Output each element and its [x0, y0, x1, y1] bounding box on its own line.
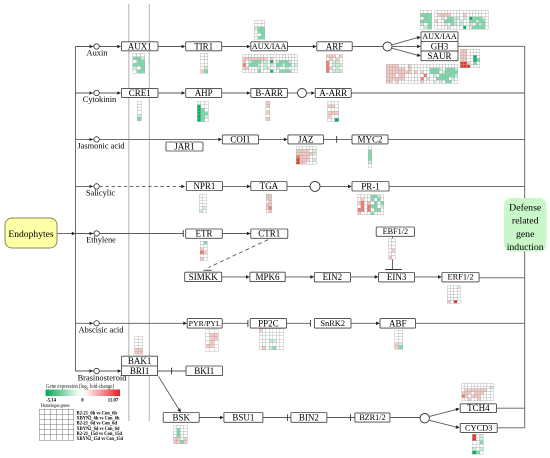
wire PP2C inhibits SnRK2 [287, 322, 311, 324]
heatmap below ETR [200, 241, 207, 261]
gene box EIN3 [379, 273, 415, 282]
heatmap below CYCD3 [472, 434, 483, 454]
gene box BSK [163, 413, 199, 423]
svg-text:A-ARR: A-ARR [319, 88, 347, 98]
svg-text:AUX/IAA: AUX/IAA [422, 32, 457, 41]
wire row start with node circle [76, 138, 94, 140]
svg-text:Gene expression (log2 fold-cha: Gene expression (log2 fold-change) [46, 383, 114, 391]
gene box JAZ [288, 135, 324, 144]
cell membrane (double vertical line) [128, 4, 130, 421]
heatmap below AUX1 [133, 53, 145, 73]
svg-text:Brasinosteroid: Brasinosteroid [78, 374, 128, 383]
junction circle brassinosteroid [420, 414, 429, 423]
svg-text:BZR1/2: BZR1/2 [359, 413, 385, 422]
svg-text:XBYN2_15d vs Con_15d: XBYN2_15d vs Con_15d [77, 437, 124, 442]
svg-text:EIN2: EIN2 [323, 272, 343, 282]
wire PR-1 row to right bus [389, 185, 525, 187]
svg-text:related: related [512, 216, 539, 227]
wire circle to BRI1 [99, 370, 118, 372]
Endophytes trunk (vertical distribution line) [75, 47, 77, 372]
svg-text:11.07: 11.07 [108, 399, 119, 404]
wire GH3 row to right bus [458, 45, 525, 47]
svg-text:induction: induction [507, 242, 544, 253]
gene box ERF1/2 [442, 273, 479, 282]
wire TIR1 to AUX/IAA [222, 46, 248, 48]
wire EIN3 to ERF1/2 [415, 276, 439, 278]
gene box ARF [317, 42, 352, 51]
svg-text:PP2C: PP2C [258, 318, 279, 328]
gene box SAUR [421, 51, 458, 61]
wire BIN2 inhibits BZR1/2 [327, 417, 355, 419]
svg-text:B-ARR: B-ARR [255, 88, 283, 98]
wire Endophytes to trunk [57, 233, 73, 235]
svg-text:CRE1: CRE1 [129, 88, 151, 98]
heatmap below JAZ [296, 147, 316, 165]
svg-text:BRI1: BRI1 [130, 366, 150, 376]
heatmap below NPR1 [199, 194, 206, 213]
gene box ETR [186, 229, 223, 238]
right-side bus line to defense box [524, 46, 526, 428]
svg-text:ERF1/2: ERF1/2 [447, 273, 473, 282]
wire JAZ inhibits MYC2 [324, 138, 352, 140]
gene box AHP [186, 88, 222, 97]
svg-text:COI1: COI1 [230, 134, 250, 144]
heatmap below EBF1/2 [389, 238, 396, 259]
wire BSU1 inhibits BIN2 [263, 417, 291, 419]
gene box GH3 [421, 42, 458, 52]
gene box BRI1 [122, 366, 158, 376]
wire row start with node circle [76, 322, 94, 324]
wire TCH4 row to right bus [497, 407, 525, 409]
svg-text:Cytokinin: Cytokinin [83, 95, 117, 104]
svg-text:Endophytes: Endophytes [8, 229, 54, 240]
svg-text:TIR1: TIR1 [194, 41, 213, 51]
svg-text:TGA: TGA [260, 181, 279, 191]
wire AUX1 to TIR1 [158, 46, 183, 48]
gene box ABF [380, 319, 416, 329]
gene box BIN2 [291, 413, 327, 423]
svg-text:gene: gene [516, 229, 535, 240]
wire row start with node circle [76, 233, 94, 235]
wire ARF to junction circle [352, 46, 383, 48]
wire AUX/IAA to ARF [287, 46, 313, 48]
wire junction to PR-1 [320, 185, 349, 187]
svg-text:Homologus genes: Homologus genes [41, 403, 70, 409]
heatmap above TCH4 [462, 383, 494, 400]
wire circle to AUX1 [99, 46, 118, 48]
svg-text:Abscisic acid: Abscisic acid [79, 326, 125, 335]
svg-text:SnRK2: SnRK2 [320, 319, 345, 328]
svg-text:EBF1/2: EBF1/2 [383, 227, 408, 236]
svg-text:PR-1: PR-1 [361, 181, 380, 191]
heatmap below auxin junction wide [386, 64, 458, 83]
wire BSK to BSU1 [199, 417, 221, 419]
wire row start with node circle [76, 46, 94, 48]
wire SnRK2 to ABF [351, 322, 377, 324]
heatmap above targets small [420, 10, 432, 29]
gene box PR-1 [352, 182, 389, 192]
heatmap below PR-1 [358, 195, 384, 215]
gene box BSU1 [224, 413, 263, 423]
heatmap above AUX/IAA [254, 21, 265, 40]
svg-text:AHP: AHP [195, 88, 213, 98]
heatmap below PP2C [259, 329, 283, 350]
heatmap below PYR/PYL [206, 330, 218, 352]
gene box CTR1 [251, 229, 288, 238]
heatmap right of SAUR [460, 49, 480, 68]
legend homologus genes grid [39, 409, 74, 440]
dashed wire circle to NPR1 [99, 185, 182, 187]
wire COI1 to JAZ [259, 138, 285, 140]
wire ABF row to right bus [416, 322, 525, 324]
gene box MPK6 [250, 272, 285, 281]
gene box TGA [251, 182, 287, 191]
wire EIN2 to EIN3 [351, 276, 376, 278]
dashed wire CTR1 inhibits SIMKK [209, 240, 269, 268]
junction circle salicylic [310, 181, 320, 191]
svg-text:GH3: GH3 [431, 41, 449, 51]
wire circle inhibits ETR [99, 233, 183, 235]
heatmap below ERF1/2 [447, 286, 460, 304]
heatmap below TGA [266, 194, 272, 213]
svg-text:CYCD3: CYCD3 [465, 423, 492, 432]
wires junction to AUX/IAA GH3 SAUR targets [392, 38, 418, 45]
wire B-ARR to junction circle [287, 92, 297, 94]
svg-text:Salicylic: Salicylic [86, 189, 116, 198]
wire row start with node circle [76, 92, 94, 94]
wire TGA to junction circle [287, 185, 310, 187]
heatmap below ARF [326, 55, 342, 73]
gene box CYCD3 [460, 423, 497, 432]
heatmap below MYC2 [368, 147, 371, 168]
svg-text:JAZ: JAZ [298, 134, 314, 144]
wire CYCD3 row to right bus [497, 427, 525, 429]
heatmap below A-ARR [328, 101, 339, 121]
svg-text:JAR1: JAR1 [174, 142, 195, 152]
gene box EIN2 [314, 273, 350, 282]
wire EBF1/2 inhibits EIN3 [392, 236, 394, 269]
svg-text:PYR/PYL: PYR/PYL [189, 319, 221, 328]
gene box PP2C [250, 319, 286, 329]
wire junction to A-ARR [307, 92, 313, 94]
wire BRI1 to BSK diagonal [159, 376, 180, 410]
heatmap below AUX/IAA [243, 54, 298, 73]
svg-text:ETR: ETR [196, 229, 213, 239]
wire row start with node circle [76, 185, 94, 187]
gene box TIR1 [186, 42, 222, 51]
wire BZR1/2 to junction circle [390, 417, 420, 419]
wire SIMKK to MPK6 [222, 276, 247, 278]
gene box BAK1 [122, 356, 158, 366]
svg-text:Auxin: Auxin [87, 49, 109, 58]
gene box SnRK2 [314, 319, 351, 329]
gene box AUX1 [122, 42, 159, 51]
gene box COI1 [222, 135, 258, 144]
svg-text:BSU1: BSU1 [232, 412, 254, 422]
wire circle to CRE1 [99, 92, 118, 94]
svg-text:MYC2: MYC2 [357, 134, 382, 144]
wires junction to TCH4 and CYCD3 [429, 409, 457, 416]
svg-text:SIMKK: SIMKK [189, 272, 219, 282]
gene box AUX/IAA target [421, 32, 458, 42]
Endophytes node (yellow rounded box) [5, 218, 57, 248]
junction circle cytokinin [298, 89, 307, 98]
Defense related gene induction node (green rounded box) [504, 198, 547, 252]
wire NPR1 to TGA [223, 185, 248, 187]
gene box SIMKK [185, 272, 222, 281]
svg-text:TCH4: TCH4 [467, 403, 490, 413]
wire MPK6 to EIN2 [285, 276, 311, 278]
svg-text:AUX/IAA: AUX/IAA [252, 42, 287, 51]
gene box B-ARR [251, 88, 288, 97]
heatmap below B-ARR [266, 101, 270, 121]
junction circle auxin [383, 42, 392, 51]
gene box BZR1/2 [355, 413, 390, 422]
wire CRE1 to AHP [158, 92, 183, 94]
wire MYC2 row to right bus [388, 138, 525, 140]
gene box AUX/IAA [251, 42, 288, 51]
gene box A-ARR [315, 88, 351, 97]
svg-text:BKI1: BKI1 [194, 366, 214, 376]
svg-text:SAUR: SAUR [427, 51, 451, 61]
heatmap above BAK1 [135, 336, 143, 354]
gene box MYC2 [352, 135, 388, 144]
svg-text:BAK1: BAK1 [128, 356, 152, 366]
wire circle to COI1 [99, 138, 219, 140]
svg-text:EIN3: EIN3 [387, 272, 407, 282]
wire AHP to B-ARR [222, 92, 248, 94]
svg-text:NPR1: NPR1 [193, 181, 215, 191]
gene box TCH4 [460, 404, 496, 413]
gene box BKI1 [186, 366, 223, 376]
svg-text:ABF: ABF [389, 318, 407, 328]
wire A-ARR row to right bus [351, 92, 525, 94]
gene box NPR1 [186, 182, 222, 191]
wire BRI1 inhibits BKI1 [158, 370, 186, 372]
wire PYR/PYL inhibits PP2C [222, 322, 248, 324]
gene box CRE1 [122, 88, 159, 97]
wire circle to PYR/PYL [99, 322, 184, 324]
wire row start with node circle [76, 370, 94, 372]
svg-text:AUX1: AUX1 [128, 41, 152, 51]
svg-text:Ethylene: Ethylene [86, 236, 116, 245]
svg-text:Defense: Defense [509, 203, 542, 214]
heatmap below ABF [395, 330, 403, 349]
wire ERF1/2 row to right bus [479, 277, 525, 279]
svg-text:BSK: BSK [172, 412, 190, 422]
svg-text:ARF: ARF [326, 41, 344, 51]
heatmap below AHP [197, 101, 208, 121]
heatmap below TIR1 [201, 53, 208, 73]
wire ETR to CTR1 [222, 233, 248, 235]
heatmap below BSK [174, 425, 187, 443]
gene box JAR1 [166, 142, 203, 151]
svg-text:BIN2: BIN2 [299, 412, 319, 422]
gene box EBF1/2 [376, 227, 414, 236]
heatmap below CRE1 [137, 101, 141, 121]
svg-text:Jasmonic acid: Jasmonic acid [77, 142, 125, 151]
heatmap above targets large [435, 10, 488, 29]
svg-text:MPK6: MPK6 [256, 272, 281, 282]
gene box PYR/PYL [187, 319, 222, 329]
svg-text:CTR1: CTR1 [258, 229, 280, 239]
